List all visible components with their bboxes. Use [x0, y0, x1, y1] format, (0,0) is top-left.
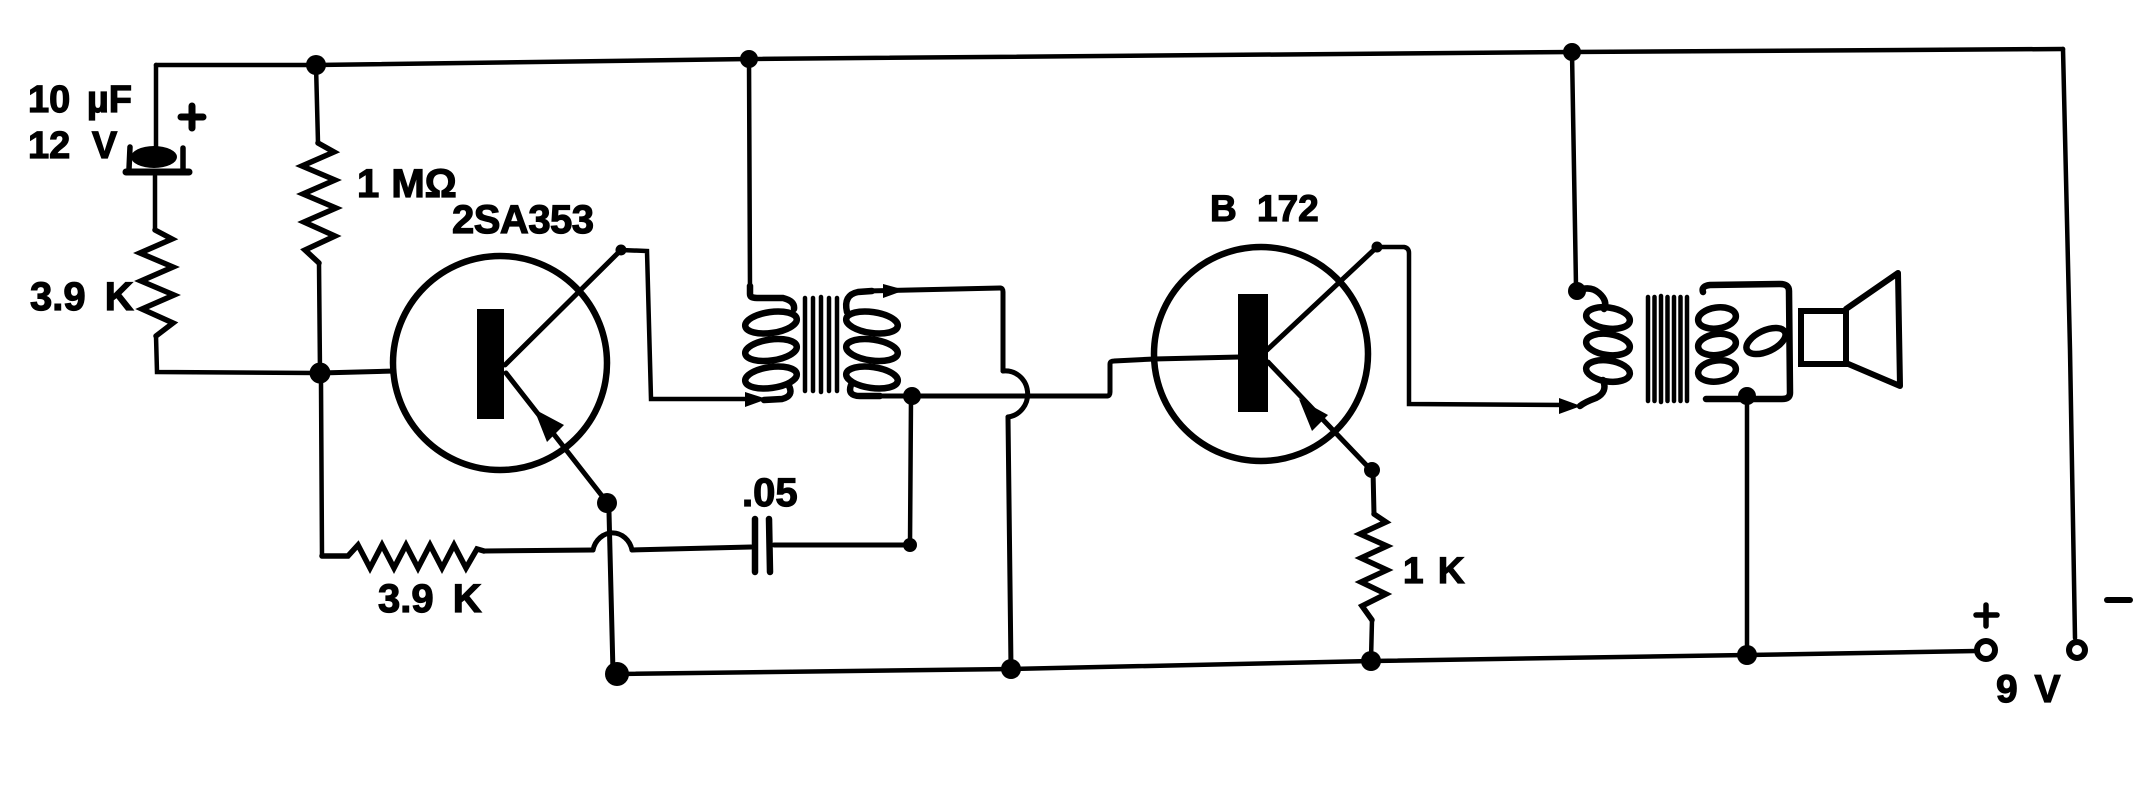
node: Q2 collector corner dot — [1372, 242, 1383, 253]
node: Q2 emitter dot — [1364, 462, 1380, 478]
T2 secondary loop 1 — [1697, 305, 1738, 331]
capacitor C1: left tick — [129, 147, 130, 169]
capacitor C1: right tick — [180, 148, 186, 169]
wire: emitter to R4 — [1373, 470, 1374, 514]
T1 secondary loop 2 — [845, 336, 899, 364]
wire: bottom rail — [617, 651, 1976, 674]
T1 primary loop 2 — [744, 336, 798, 364]
junction arrow into T1 primary bottom — [745, 392, 767, 407]
wire: emitter down to bottom rail — [609, 512, 613, 672]
wire: Q2 base — [1154, 357, 1240, 359]
svg-text:2SA353: 2SA353 — [452, 198, 594, 242]
node: top rail / 1M junction — [306, 55, 326, 75]
transformer T2 core — [1648, 296, 1687, 402]
svg-text:.05: .05 — [742, 471, 798, 515]
wire: Q2 collector to T2 primary bottom — [1377, 247, 1566, 405]
Q2 emitter lead — [1268, 362, 1371, 470]
wire: C1 to R1 — [153, 176, 158, 230]
wire: step up to Q2 base — [1107, 359, 1154, 396]
Q1 base bar — [477, 309, 504, 419]
transformer T1 core — [805, 297, 837, 392]
node: Q1 collector corner dot — [616, 245, 627, 256]
svg-text:3.9 K: 3.9 K — [378, 577, 482, 621]
T2 secondary inner oval — [1743, 323, 1790, 360]
node: bottom rail / speaker return junction — [1737, 645, 1757, 665]
svg-text:9 V: 9 V — [1996, 668, 2061, 711]
T2 secondary loop 3 — [1697, 358, 1738, 384]
label: + of battery — [1976, 605, 1997, 626]
node: top rail / T2 primary junction — [1563, 43, 1581, 61]
wire: T1 secondary top — [866, 288, 1000, 291]
label: + polarity of C1 — [181, 106, 203, 128]
resistor R4 1 K vertical — [1360, 514, 1387, 620]
T2 secondary loop 2 — [1697, 331, 1738, 357]
wire hop over emitter wire — [593, 533, 632, 550]
node: T1 secondary bottom junction — [903, 387, 921, 405]
wire: T2 secondary down to bottom rail — [1745, 396, 1750, 654]
wire: hop to C2 — [632, 547, 751, 550]
wire: riser up to T1 secondary bottom — [910, 398, 911, 545]
node: T2 primary top dot — [1568, 282, 1586, 300]
T2 primary entry — [1577, 288, 1605, 309]
svg-text:1 MΩ: 1 MΩ — [357, 162, 457, 206]
node: Q1 emitter blob — [597, 493, 617, 513]
node: T2 secondary bottom junction — [1738, 387, 1756, 405]
capacitor C1: bottom plate — [126, 169, 189, 176]
junction arrow into T2 primary bottom — [1559, 398, 1581, 414]
wire: rail to R2 — [316, 65, 318, 143]
wire: down to bottom rail — [1008, 417, 1011, 668]
transistor Q2 B172: circle — [1154, 247, 1368, 461]
speaker: driver box — [1801, 311, 1846, 364]
wire: right edge negative lead — [2063, 49, 2075, 638]
Q1 emitter arrow (PNP, points toward base) — [534, 409, 564, 442]
wire: R3 to hop — [484, 550, 593, 551]
resistor R2 1 Mohm vertical — [302, 143, 336, 263]
Q1 emitter lead — [506, 373, 606, 501]
T2 primary loop 2 — [1585, 331, 1631, 358]
Q2 emitter arrow (PNP) — [1299, 399, 1328, 431]
node: bottom rail left end — [605, 662, 629, 686]
terminal: battery positive — [1977, 641, 1995, 659]
wire: base node to Q1 base — [320, 371, 394, 373]
wire: R1 to base node corner — [156, 336, 316, 373]
T1 primary loop 1 — [744, 308, 798, 336]
T1 secondary entry top — [846, 291, 872, 312]
T1 primary exit — [764, 386, 790, 400]
wire: T1 secondary bottom to step — [874, 394, 1107, 399]
capacitor C2 .05: left plate — [752, 519, 759, 572]
wire: top supply rail — [156, 49, 2063, 65]
terminal: battery negative — [2069, 642, 2085, 658]
node: riser corner — [903, 538, 917, 552]
node: T1 secondary vertical / bottom rail junction — [1001, 659, 1021, 679]
node: top rail / T1 primary junction — [740, 50, 758, 68]
T2 primary loop 1 — [1585, 305, 1631, 332]
wire: rail down to C1 — [154, 65, 159, 147]
wire hop: vertical hops over secondary bottom wire — [1003, 371, 1028, 417]
svg-text:3.9 K: 3.9 K — [30, 275, 134, 319]
wire: C2 to riser corner — [774, 543, 909, 548]
T2 secondary outline — [1703, 284, 1790, 399]
wire: T2 primary top lead — [1572, 52, 1576, 286]
T1 secondary loop 3 — [845, 363, 899, 391]
wire: Q1 collector to T1 primary bottom — [621, 250, 758, 399]
wire: base node down to R3 — [321, 383, 322, 556]
wire: R4 to bottom rail — [1371, 620, 1372, 660]
svg-text:B 172: B 172 — [1210, 188, 1319, 229]
resistor R3 3.9 K horizontal — [322, 545, 484, 568]
capacitor C1 10uF electrolytic: curved plate — [131, 146, 177, 168]
junction arrow on T1 secondary top wire — [883, 284, 905, 298]
T1 secondary loop 1 — [845, 308, 899, 336]
resistor R1 3.9 K vertical — [140, 230, 174, 336]
T2 primary exit — [1580, 380, 1604, 406]
T2 primary loop 3 — [1585, 358, 1631, 385]
node: base junction — [310, 363, 331, 384]
Q1 collector lead — [505, 250, 621, 365]
T1 secondary exit bottom — [850, 385, 880, 396]
speaker: horn — [1846, 273, 1900, 386]
node: R4 bottom rail junction — [1361, 651, 1381, 671]
wire: corner down from secondary top — [1000, 288, 1003, 371]
label: minus sign — [2107, 597, 2130, 603]
T1 primary loop 3 — [744, 363, 798, 391]
transformer T1 primary entry — [750, 286, 794, 309]
Q2 collector lead — [1267, 247, 1377, 350]
svg-text:12 V: 12 V — [28, 125, 118, 167]
wire: R2 to base node — [319, 263, 320, 373]
wire: T1 primary top lead — [749, 59, 750, 291]
svg-text:10 µF: 10 µF — [28, 79, 132, 121]
capacitor C2 .05: right plate — [769, 519, 770, 572]
Q2 base bar — [1238, 294, 1268, 412]
transistor Q1 2SA353: circle — [393, 256, 607, 470]
